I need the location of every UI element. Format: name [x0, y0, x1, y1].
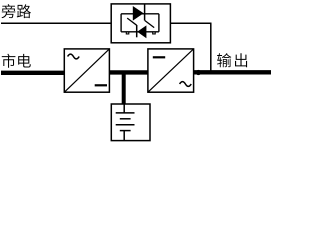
static bypass switch box — [111, 4, 170, 43]
AC symbol (~) in inverter — [180, 82, 192, 87]
wire: inverter to output bus (thick) — [194, 70, 272, 74]
battery box — [111, 104, 150, 141]
DC symbol (-) in rectifier — [95, 84, 107, 86]
gate of SCR2 — [127, 18, 136, 25]
thyristor SCR2 (bottom, pointing left) — [137, 25, 146, 38]
wire: switch box to corner — [170, 22, 211, 24]
battery symbol — [116, 104, 135, 140]
label text "输出" — [217, 53, 247, 67]
gate terminal notch left on loop bottom wire — [126, 32, 129, 34]
AC symbol (~) in rectifier — [68, 54, 80, 59]
label text "市电" — [2, 54, 31, 68]
DC symbol (-) in inverter — [153, 56, 165, 58]
gate terminal notch right on loop bottom wire — [153, 32, 156, 34]
wire: mains input bus (thick) — [1, 71, 65, 75]
wire: vertical down to output bus — [210, 23, 212, 71]
inverter diagonal — [148, 49, 193, 92]
rectifier diagonal — [65, 49, 110, 92]
wire: SCR loop bottom branch — [121, 31, 159, 33]
inverter box (DC to AC) — [148, 49, 194, 92]
gate of SCR1 — [145, 21, 154, 28]
wire: SCR loop top branch — [121, 13, 159, 15]
rectifier box (AC to DC) — [64, 49, 109, 92]
wire: SCR loop right — [158, 14, 160, 32]
wire: DC bus down to battery (thick) — [122, 74, 126, 105]
wire: SCR loop left — [120, 14, 122, 32]
thyristor SCR1 (top, pointing right) — [133, 6, 144, 21]
wire: rectifier to inverter bus (thick) — [109, 70, 149, 74]
junction dot on output bus — [196, 70, 201, 75]
wire: bypass line from 旁路 to static switch box — [1, 22, 111, 24]
label text "旁路" — [1, 4, 30, 18]
